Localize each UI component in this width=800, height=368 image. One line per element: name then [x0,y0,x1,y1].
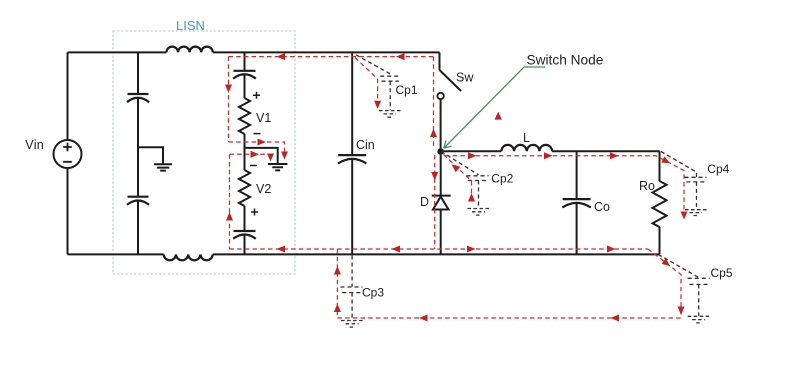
noise path ground return horizontal [337,317,681,319]
wire switch node to diode [440,155,442,196]
capacitor V1 top [233,71,256,79]
noise arrow Cp2 diagonal up [452,165,461,173]
svg-text:Co: Co [594,200,610,214]
svg-text:Cp4: Cp4 [707,162,729,176]
ground Cp1 dashed [379,111,401,118]
noise arrow Cp4 down [681,212,688,220]
svg-text:Cin: Cin [356,138,375,152]
noise arrow Cp4 diagonal [661,156,670,163]
noise path Cp3 vertical [336,249,338,318]
capacitor V2 bottom [233,231,256,239]
noise path top horizontal [229,56,435,58]
svg-text:Cp1: Cp1 [396,83,418,97]
noise arrow top mid [396,53,405,60]
noise arrow return left1 [419,315,428,322]
svg-text:V2: V2 [256,182,271,196]
noise path Cp1 branch [355,58,378,103]
noise arrow Cp3 up2 [334,304,341,313]
noise path LISN left vertical lower [229,154,231,249]
polarity V1 plus [253,92,260,99]
parasitic capacitor Cp1 [356,55,400,110]
noise arrow LISN up [226,212,233,221]
polarity V2 minus [250,165,257,167]
wire V1V2 branch [244,52,246,254]
noise arrow Cp5 down [678,307,685,316]
inductor LISN top [166,47,212,53]
wire Co branch [576,151,578,254]
capacitor Co [562,199,590,207]
noise arrow switch up [430,129,437,138]
ground Cp2 dashed [468,209,490,216]
node switch node dot [437,148,444,155]
noise arrow bottom left2 [392,246,401,253]
noise arrow stray triangle [495,112,502,120]
noise arrow output right2 [544,152,553,159]
resistor V2 [239,170,250,206]
noise arrow bottom right1 [467,246,476,253]
noise arrow V2 right [251,151,260,158]
switch Sw [437,52,461,148]
svg-text:LISN: LISN [176,18,205,33]
svg-text:L: L [523,131,530,145]
ground Cp4 dashed [685,210,707,216]
wire Cin branch [351,52,353,254]
noise arrow LISN down [225,85,232,94]
noise arrow bottom right2 [607,246,616,253]
svg-text:Ro: Ro [639,179,655,193]
noise arrow V1 right [258,139,267,146]
noise path Cp5 diagonal [648,249,681,316]
capacitor Cin [338,155,366,163]
wire top rail [68,51,440,53]
noise arrow Cp1 down [374,101,381,109]
noise arrow bottom left1 [277,246,286,253]
ground LISN [154,164,172,170]
parasitic capacitor Cp5 [658,254,710,315]
resistor Ro [653,151,667,254]
svg-text:Cp2: Cp2 [491,171,513,185]
wire switch node to L [444,150,502,152]
annotation green leader line [444,67,545,148]
ground V1V2 midpoint [268,164,287,170]
ground Cp3 dashed [341,321,363,328]
ground Cp5 dashed [688,316,710,323]
wire bottom rail [68,253,660,255]
svg-text:Switch Node: Switch Node [527,53,604,68]
parasitic capacitor Cp4 [661,152,707,210]
LISN box [113,31,295,274]
noise arrow top left [277,53,286,60]
svg-text:Vin: Vin [25,138,44,152]
noise path LISN left vertical upper [228,57,230,142]
svg-text:Cp3: Cp3 [362,285,384,299]
noise path Cp2 branch [444,155,472,205]
inductor LISN bottom [164,254,213,260]
noise arrow V1 ground down [281,152,288,160]
capacitor LISN C2 [127,197,149,205]
diode D [432,196,451,255]
wire V1V2 midpoint ground tap [245,148,278,163]
inductor L [501,145,552,151]
noise path diode vertical [434,155,436,249]
noise path output horizontal [445,156,684,214]
svg-text:Cp5: Cp5 [711,266,733,280]
noise path bottom horizontal [230,248,649,250]
parasitic capacitor Cp3 [341,256,363,320]
noise arrow Cp5 diagonal [662,258,671,266]
noise path V2 ground horizontal [230,154,271,156]
wire L to output corner [552,150,659,152]
noise path V1 ground horizontal [229,142,285,156]
polarity V2 plus [251,209,258,216]
noise arrow V2 ground down [267,154,274,162]
svg-text:V1: V1 [256,111,271,125]
wire LISN ground tap [138,147,163,164]
polarity V1 minus [254,133,261,135]
noise arrow Cp2 up [468,193,475,202]
noise arrow return left2 [611,315,620,322]
svg-text:Sw: Sw [456,71,474,85]
noise arrow output right3 [610,152,619,159]
wire LISN capacitor branch [137,52,139,254]
noise arrow Cp3 up1 [334,266,341,275]
noise path switch vertical upper [433,57,435,148]
noise arrow diode down [431,172,438,181]
resistor V1 [239,98,250,134]
capacitor LISN C1 [127,94,149,102]
svg-text:D: D [420,195,429,209]
source Vin [54,52,82,254]
noise arrow output right1 [468,152,477,159]
parasitic capacitor Cp2 [441,152,488,209]
